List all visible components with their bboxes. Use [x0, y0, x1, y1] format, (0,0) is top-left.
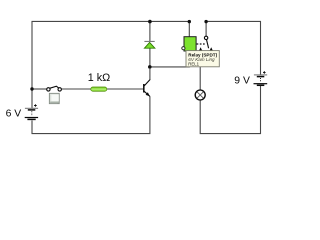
- diode D1 flyback: [144, 41, 155, 48]
- node collector-coil-diode junction: [148, 65, 152, 69]
- wire bottom left return: [32, 96, 150, 133]
- relay REL1 coil: [182, 37, 196, 51]
- transistor Q1: [144, 68, 150, 96]
- switch SW1 button cap: [49, 93, 59, 103]
- wire node to relay coil bottom: [150, 51, 189, 67]
- relay REL1 mechanical link (dashed): [197, 43, 206, 45]
- wire top rail left segment (6V + rail): [32, 21, 189, 89]
- svg-text:9 V: 9 V: [234, 75, 250, 86]
- wire diode branch top: [149, 21, 151, 41]
- svg-text:REL1: REL1: [188, 62, 199, 67]
- wire relay throw to lamp: [199, 51, 201, 90]
- wire relay coil top: [188, 21, 190, 36]
- battery B2 9V plates: [254, 71, 268, 85]
- wire junction to switch: [32, 88, 47, 90]
- wire top rail right segment (9V + rail): [206, 21, 260, 74]
- node coil tap on top rail: [188, 20, 191, 23]
- lamp LP1: [195, 90, 205, 100]
- wire bottom right return: [200, 86, 260, 134]
- wire relay switch common: [205, 21, 207, 36]
- battery B1 6V plates: [25, 104, 38, 119]
- wire resistor to transistor base: [107, 88, 144, 90]
- node switch tap on top rail: [204, 20, 207, 23]
- svg-text:1 kΩ: 1 kΩ: [88, 72, 110, 84]
- node junction at 6V rail: [30, 87, 33, 90]
- resistor R1 body: [91, 87, 107, 91]
- relay REL1 changeover switch: [199, 36, 213, 51]
- svg-text:6 V: 6 V: [6, 108, 22, 119]
- relay REL1 tooltip label box: [186, 51, 219, 67]
- switch SW1 contacts: [47, 86, 62, 91]
- wire switch to resistor: [61, 88, 91, 90]
- wire diode to collector node: [149, 48, 151, 67]
- node diode tap on top rail: [148, 20, 152, 24]
- wire junction down to 6V battery: [31, 89, 33, 108]
